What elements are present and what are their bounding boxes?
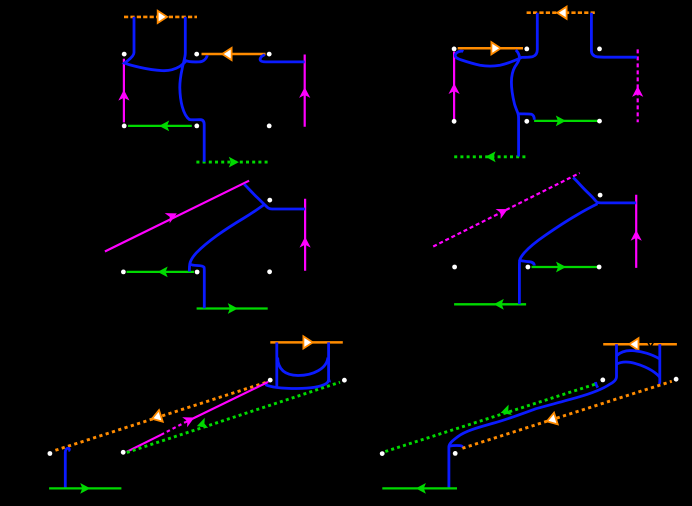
green dashed bottom edge arrow (right) <box>229 157 239 168</box>
magenta diagonal edge arrow (up-right) <box>165 208 180 223</box>
orange solid edge <box>202 53 266 56</box>
magenta vertical edge arrow (up) <box>300 237 311 248</box>
magenta right edge <box>304 55 306 127</box>
green bottom edge arrow (left) <box>494 299 504 310</box>
blue cup right vertical with curl <box>329 342 331 381</box>
green solid bottom edge <box>382 487 457 489</box>
orange dashed diagonal arrow (down-left) <box>150 410 163 424</box>
magenta diagonal edge solid upper part <box>186 382 269 422</box>
blue upper inner arc <box>617 351 660 359</box>
orange dashed top edge <box>527 11 597 14</box>
marked point <box>267 52 272 57</box>
marked point <box>524 47 529 52</box>
green bottom edge <box>454 303 526 305</box>
blue right vertical <box>658 344 662 384</box>
green mid edge <box>127 271 195 273</box>
marked point <box>452 47 457 52</box>
green mid edge <box>532 266 599 268</box>
magenta diagonal arrow (up-right) <box>182 412 197 427</box>
magenta left edge <box>453 52 455 120</box>
green solid edge <box>128 125 192 127</box>
marked point <box>122 52 127 57</box>
magenta diagonal edge dashed middle part <box>161 422 186 435</box>
marked point <box>121 450 126 455</box>
magenta right edge arrow (up) <box>299 87 310 98</box>
marked point <box>194 124 199 129</box>
blue curve: from orange edge down S-curve to green dashed edge <box>511 50 519 157</box>
magenta dashed diagonal edge <box>433 173 580 247</box>
marked point <box>597 47 602 52</box>
orange solid top edge arrow (left) <box>629 338 638 350</box>
green bottom edge arrow (right) <box>228 303 238 314</box>
blue cup left vertical <box>275 342 278 387</box>
marked point <box>380 451 385 456</box>
green dashed bottom edge <box>454 155 527 158</box>
blue short strand with top curl <box>65 448 69 488</box>
green dashed diagonal edge <box>385 384 597 452</box>
blue curve: from orange edge right end to magenta right edge <box>260 55 305 62</box>
blue fork branch to vertical down to green bottom edge <box>190 264 205 308</box>
green dashed bottom edge <box>196 161 269 164</box>
orange solid top edge arrow (right) <box>303 336 312 348</box>
blue branch: from magenta dashed diagonal to elbow then to magenta vertical edge <box>573 178 636 203</box>
blue arc: big arc down-left <box>189 205 263 272</box>
marked point <box>121 270 126 275</box>
blue fork tail near upper dot <box>596 382 598 388</box>
marked point <box>122 124 127 129</box>
green bottom edge <box>197 307 268 309</box>
blue arc: big arc down-left with curl fork <box>520 204 598 266</box>
green solid bottom edge arrow (left) <box>416 483 426 494</box>
blue branch: fork ending at green solid edge left end <box>518 114 534 120</box>
magenta dashed right edge arrow (up) <box>632 86 643 97</box>
orange solid edge <box>458 47 523 50</box>
blue curve: right vertical, S-curve down to green dashed edge <box>180 17 204 162</box>
blue left vertical and long descending curve to bottom <box>449 344 617 488</box>
blue cup inner arc <box>278 358 328 376</box>
marked point <box>267 269 272 274</box>
green mid edge arrow (left) <box>158 267 168 278</box>
blue branch: from magenta diagonal to elbow then to magenta vertical edge <box>244 184 305 209</box>
marked point <box>48 451 53 456</box>
orange solid edge arrow (right) <box>491 42 500 54</box>
marked point <box>195 270 200 275</box>
orange solid top edge <box>270 341 343 344</box>
orange dashed diagonal edge <box>462 381 671 448</box>
blue curve: right-of-center vertical, hook left, smile, loop under left dot ending at orange edge <box>455 13 537 66</box>
green solid edge arrow (left) <box>159 121 169 132</box>
green dashed diagonal edge <box>127 382 340 452</box>
marked point <box>600 378 605 383</box>
green dashed diagonal arrow (down-left) <box>499 405 512 418</box>
green mid edge arrow (right) <box>556 262 566 273</box>
magenta left edge <box>123 59 125 123</box>
marked point <box>597 119 602 124</box>
green dashed bottom edge arrow (left) <box>486 151 496 162</box>
marked point <box>524 119 529 124</box>
magenta vertical edge arrow (up) <box>631 230 642 241</box>
marked point <box>267 124 272 129</box>
green solid bottom edge arrow (right) <box>80 483 90 494</box>
marked point <box>268 378 273 383</box>
marked point <box>598 193 603 198</box>
orange dashed top edge <box>124 16 197 19</box>
marked point <box>194 52 199 57</box>
blue cup outer bottom curve <box>265 380 328 389</box>
marked point <box>453 451 458 456</box>
orange dashed top edge arrow (left) <box>557 7 566 19</box>
orange solid edge arrow (left) <box>222 48 231 60</box>
magenta left edge arrow (up) <box>118 90 129 101</box>
green solid edge <box>534 120 598 122</box>
magenta dashed right edge <box>637 49 639 122</box>
blue hook branch near lower middle dot <box>449 446 463 448</box>
blue curve: left vertical, smile arc, curl up to orange edge <box>124 17 207 71</box>
blue curve: far-right vertical hooking right to magenta dashed edge <box>591 13 637 58</box>
green solid edge arrow (right) <box>556 116 566 127</box>
marked point <box>452 265 457 270</box>
magenta dashed diagonal edge arrow (up-right) <box>496 204 511 219</box>
marked point <box>597 265 602 270</box>
green solid bottom edge <box>49 487 121 489</box>
marked point <box>674 377 679 382</box>
orange dashed diagonal edge <box>55 382 268 451</box>
magenta diagonal edge solid lower part <box>127 435 161 452</box>
marked point <box>342 378 347 383</box>
blue lower inner arc <box>617 362 660 377</box>
blue main descent to green bottom edge <box>518 260 521 304</box>
magenta diagonal edge <box>105 181 249 252</box>
orange dashed top edge arrow (right) <box>158 11 167 23</box>
magenta left edge arrow (up) <box>449 83 460 94</box>
orange solid top edge <box>603 343 677 346</box>
green dashed diagonal arrow (down-left) <box>195 418 208 431</box>
magenta vertical edge <box>635 195 637 268</box>
marked point <box>452 119 457 124</box>
black notch on orange edge <box>648 342 654 348</box>
marked point <box>267 198 272 203</box>
marked point <box>526 265 531 270</box>
orange dashed diagonal arrow (down-left) <box>545 413 558 427</box>
magenta vertical edge <box>304 199 306 271</box>
